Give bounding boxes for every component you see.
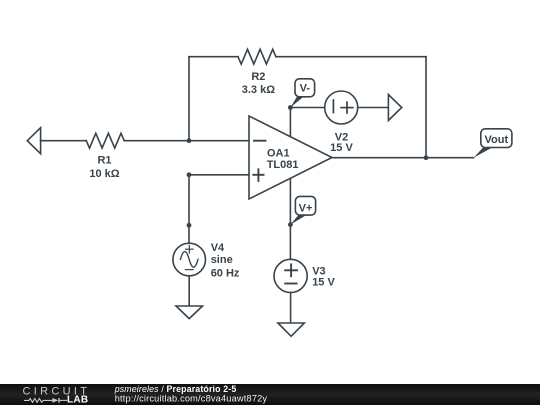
voltage source V2 — [325, 91, 358, 124]
CircuitLab logo wordmark CIRCUIT — [23, 386, 91, 398]
svg-text:OA1: OA1 — [267, 147, 290, 159]
node V- — [288, 105, 293, 110]
wire non-inverting input — [189, 174, 249, 176]
ground below V4 — [176, 306, 203, 319]
svg-text:V-: V- — [300, 82, 311, 94]
V3 value label — [312, 277, 335, 289]
footer url line — [115, 393, 268, 403]
voltage source V3 — [274, 259, 307, 292]
svg-text:60 Hz: 60 Hz — [211, 267, 240, 279]
resistor R1 — [86, 133, 124, 148]
wire top to R2 — [189, 56, 238, 58]
input terminal flag — [27, 128, 40, 154]
wire R2 to right corner — [276, 56, 426, 58]
svg-text:sine: sine — [211, 254, 233, 266]
wire V+ node to V3 — [289, 225, 291, 260]
V+ flag text — [299, 202, 313, 214]
V- flag text — [300, 82, 311, 94]
net flag V+ — [290, 196, 315, 224]
V2 value label — [330, 142, 353, 154]
V4 type label — [211, 254, 233, 266]
V4 frequency label — [211, 267, 240, 279]
node non-inverting junction — [187, 172, 192, 177]
V3 label — [312, 266, 325, 278]
R1 label — [97, 155, 111, 167]
svg-text:LAB: LAB — [67, 394, 88, 405]
wire V4 to ground — [188, 276, 190, 306]
footer bar — [0, 384, 540, 405]
wire V- node to V2 — [290, 107, 325, 109]
node inverting input junction — [187, 138, 192, 143]
wire R1 to op-amp inverting input — [124, 140, 249, 142]
wire input to R1 — [41, 140, 87, 142]
V4 label — [211, 242, 225, 254]
CircuitLab logo resistor-diode symbol — [24, 398, 67, 403]
svg-text:Vout: Vout — [484, 134, 508, 146]
CircuitLab logo wordmark LAB — [67, 394, 88, 405]
svg-text:3.3 kΩ: 3.3 kΩ — [242, 84, 275, 96]
node V+ — [288, 222, 293, 227]
Vout flag text — [484, 134, 508, 146]
svg-text:15 V: 15 V — [312, 277, 335, 289]
wire down to V4 — [188, 175, 190, 243]
svg-text:V3: V3 — [312, 266, 325, 278]
svg-text:15 V: 15 V — [330, 142, 353, 154]
node output junction — [424, 155, 429, 160]
wire V2 to output terminal — [358, 107, 389, 109]
svg-text:V+: V+ — [299, 202, 313, 214]
svg-text:http://circuitlab.com/c8va4uaw: http://circuitlab.com/c8va4uawt872y — [115, 393, 268, 403]
ground below V3 — [278, 323, 304, 336]
net flag Vout — [474, 129, 512, 158]
resistor R2 — [238, 49, 276, 64]
net flag V- — [290, 79, 314, 108]
output terminal flag — [388, 95, 401, 121]
node V4 top junction — [187, 223, 192, 228]
V2 label — [335, 131, 348, 143]
svg-text:R2: R2 — [251, 71, 265, 83]
svg-text:R1: R1 — [97, 155, 111, 167]
R2 label — [251, 71, 265, 83]
R1 value label — [89, 168, 119, 180]
voltage source V4 sine — [173, 243, 206, 276]
wire op-amp output — [332, 157, 474, 159]
svg-text:10 kΩ: 10 kΩ — [89, 168, 119, 180]
wire V3 to ground — [290, 293, 292, 324]
wire feedback right vertical — [425, 57, 427, 158]
wire op-amp bottom power pin — [289, 178, 291, 224]
OA1 part label — [267, 159, 299, 171]
svg-text:TL081: TL081 — [267, 159, 299, 171]
wire op-amp top power pin — [289, 108, 291, 137]
wire feedback left vertical — [188, 57, 190, 141]
OA1 label — [267, 147, 290, 159]
footer author and title line — [114, 384, 237, 394]
op-amp OA1 — [249, 116, 332, 199]
svg-text:V4: V4 — [211, 242, 225, 254]
R2 value label — [242, 84, 275, 96]
